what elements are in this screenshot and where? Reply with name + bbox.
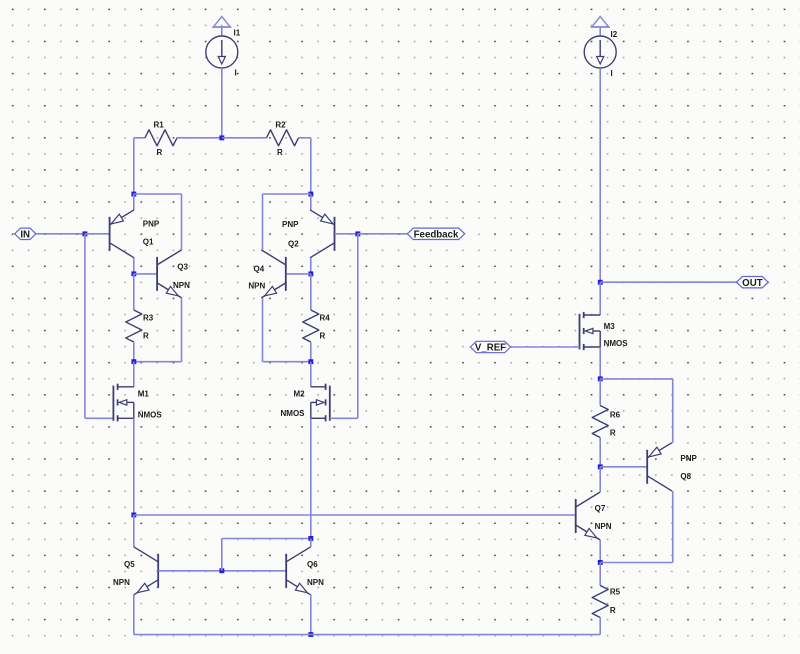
wire bbox=[134, 137, 145, 139]
node junction left rail bbox=[131, 513, 136, 518]
wire bbox=[133, 418, 135, 515]
node junction IN bbox=[83, 231, 88, 236]
port V_REF bbox=[470, 341, 510, 353]
wire bbox=[221, 68, 223, 138]
port Feedback bbox=[407, 228, 464, 240]
svg-text:Q2: Q2 bbox=[288, 239, 299, 248]
wire bbox=[133, 138, 135, 194]
wire bbox=[158, 570, 286, 572]
svg-text:M1: M1 bbox=[138, 390, 150, 399]
value label R bbox=[157, 148, 163, 157]
wire bbox=[85, 417, 114, 419]
svg-text:R2: R2 bbox=[275, 120, 286, 129]
wire bbox=[85, 233, 110, 235]
svg-text:PNP: PNP bbox=[143, 219, 160, 228]
transistor Q2 PNP bbox=[310, 210, 335, 258]
wire bbox=[330, 417, 358, 419]
svg-text:R: R bbox=[143, 331, 149, 340]
wire bbox=[600, 378, 673, 380]
svg-text:NPN: NPN bbox=[595, 522, 612, 531]
label Q7 bbox=[595, 504, 606, 513]
wire bbox=[599, 282, 601, 315]
current source I1 bbox=[206, 36, 238, 68]
wire bbox=[310, 258, 312, 274]
wire bbox=[177, 137, 222, 139]
svg-text:R: R bbox=[320, 331, 326, 340]
port OUT bbox=[737, 277, 769, 289]
wire bbox=[134, 514, 576, 516]
label NPN bbox=[248, 282, 265, 291]
svg-text:PNP: PNP bbox=[680, 454, 697, 463]
wire bbox=[263, 361, 311, 363]
svg-text:NPN: NPN bbox=[113, 578, 130, 587]
wire bbox=[599, 540, 601, 563]
svg-text:IN: IN bbox=[20, 229, 30, 240]
svg-text:R6: R6 bbox=[610, 411, 621, 420]
wire bbox=[310, 194, 312, 210]
value label R bbox=[277, 148, 283, 157]
svg-text:R: R bbox=[610, 429, 616, 438]
svg-text:I1: I1 bbox=[234, 29, 241, 38]
label M2 bbox=[294, 390, 306, 399]
wire bbox=[221, 27, 223, 36]
resistor R4 bbox=[303, 310, 319, 342]
wire bbox=[133, 515, 135, 547]
wire bbox=[335, 233, 358, 235]
wire bbox=[511, 346, 580, 348]
label Q6 bbox=[307, 560, 318, 569]
wire bbox=[133, 258, 135, 274]
label R3 bbox=[143, 313, 154, 322]
node junction R6 bottom bbox=[598, 464, 603, 469]
wire bbox=[310, 274, 312, 310]
label PNP bbox=[282, 220, 299, 229]
wire bbox=[299, 137, 311, 139]
value label I bbox=[235, 69, 237, 78]
node junction Q7 emitter bbox=[598, 560, 603, 565]
wire bbox=[133, 362, 135, 387]
value label I bbox=[611, 69, 613, 78]
node junction Q2 emitter bbox=[308, 192, 313, 197]
node junction R4 bottom bbox=[308, 359, 313, 364]
label R6 bbox=[610, 411, 621, 420]
wire bbox=[599, 618, 601, 635]
wire bbox=[310, 138, 312, 194]
transistor Q3 NPN bbox=[157, 250, 182, 298]
svg-text:NPN: NPN bbox=[248, 282, 265, 291]
svg-text:R: R bbox=[157, 148, 163, 157]
svg-text:I: I bbox=[235, 69, 237, 78]
label Q4 bbox=[254, 264, 265, 273]
label I2 bbox=[611, 30, 618, 39]
svg-text:NPN: NPN bbox=[173, 281, 190, 290]
wire bbox=[222, 137, 267, 139]
value label R bbox=[610, 606, 616, 615]
wire bbox=[599, 68, 601, 282]
label NMOS bbox=[604, 339, 629, 348]
svg-text:Feedback: Feedback bbox=[414, 229, 459, 240]
wire bbox=[310, 362, 312, 387]
wire bbox=[310, 539, 312, 547]
resistor R1 bbox=[145, 130, 177, 146]
node junction Q6 collector bbox=[308, 536, 313, 541]
svg-text:NPN: NPN bbox=[307, 578, 324, 587]
svg-text:V_REF: V_REF bbox=[475, 343, 506, 354]
svg-text:I: I bbox=[611, 69, 613, 78]
wire bbox=[599, 379, 601, 406]
node junction M3 source bbox=[598, 376, 603, 381]
value label R bbox=[143, 331, 149, 340]
label R4 bbox=[320, 313, 331, 322]
svg-text:I2: I2 bbox=[611, 30, 618, 39]
wire bbox=[262, 194, 264, 250]
node junction Q2 collector bbox=[308, 271, 313, 276]
svg-text:Q3: Q3 bbox=[177, 263, 188, 272]
svg-text:NMOS: NMOS bbox=[281, 409, 306, 418]
label Q2 bbox=[288, 239, 299, 248]
transistor Q5 NPN bbox=[134, 547, 159, 595]
svg-text:Q7: Q7 bbox=[595, 504, 606, 513]
svg-text:R1: R1 bbox=[154, 120, 165, 129]
wire bbox=[310, 418, 312, 538]
node junction OUT bbox=[598, 280, 603, 285]
svg-text:Q6: Q6 bbox=[307, 560, 318, 569]
wire bbox=[262, 298, 264, 362]
resistor R2 bbox=[267, 130, 299, 146]
wire bbox=[263, 193, 311, 195]
wire bbox=[221, 539, 223, 571]
value label R bbox=[320, 331, 326, 340]
svg-text:Q5: Q5 bbox=[124, 560, 135, 569]
wire bbox=[36, 233, 85, 235]
node junction Feedback bbox=[355, 231, 360, 236]
transistor M3 NMOS bbox=[580, 312, 601, 350]
svg-text:R: R bbox=[610, 606, 616, 615]
svg-text:NMOS: NMOS bbox=[138, 411, 163, 420]
wire bbox=[357, 234, 359, 418]
value label R bbox=[610, 429, 616, 438]
label M3 bbox=[604, 322, 616, 331]
wire bbox=[599, 467, 601, 492]
transistor Q8 PNP bbox=[647, 443, 672, 491]
label NMOS bbox=[138, 411, 163, 420]
svg-text:R4: R4 bbox=[320, 313, 331, 322]
svg-text:M2: M2 bbox=[294, 390, 306, 399]
wire bbox=[134, 361, 182, 363]
port IN bbox=[15, 228, 36, 240]
wire bbox=[286, 273, 311, 275]
label R2 bbox=[275, 120, 286, 129]
node junction R1-R2-I1 bbox=[219, 135, 224, 140]
svg-text:Q8: Q8 bbox=[680, 472, 691, 481]
transistor M1 NMOS bbox=[113, 384, 133, 422]
label M1 bbox=[138, 390, 150, 399]
wire bbox=[133, 194, 135, 210]
svg-text:R3: R3 bbox=[143, 313, 154, 322]
node junction Q1 emitter bbox=[131, 192, 136, 197]
label NPN bbox=[595, 522, 612, 531]
wire bbox=[133, 342, 135, 362]
wire bbox=[358, 233, 408, 235]
wire bbox=[134, 193, 182, 195]
node junction R3 bottom bbox=[131, 359, 136, 364]
transistor M2 NMOS bbox=[311, 384, 330, 422]
transistor Q7 NPN bbox=[576, 492, 601, 540]
wire bbox=[599, 27, 601, 36]
label NPN bbox=[113, 578, 130, 587]
wire bbox=[310, 342, 312, 362]
wire bbox=[310, 595, 312, 635]
wire bbox=[84, 234, 86, 418]
wire bbox=[600, 562, 673, 564]
label Q3 bbox=[177, 263, 188, 272]
svg-text:M3: M3 bbox=[604, 322, 616, 331]
svg-text:Q1: Q1 bbox=[143, 238, 154, 247]
wire bbox=[181, 298, 183, 362]
transistor Q1 PNP bbox=[110, 210, 135, 258]
label Q5 bbox=[124, 560, 135, 569]
wire bbox=[222, 538, 311, 540]
label I1 bbox=[234, 29, 241, 38]
label NMOS bbox=[281, 409, 306, 418]
wire bbox=[599, 563, 601, 586]
power flag above I2 bbox=[591, 17, 610, 28]
resistor R3 bbox=[126, 310, 142, 342]
wire bbox=[181, 194, 183, 250]
transistor Q4 NPN bbox=[261, 250, 286, 298]
transistor Q6 NPN bbox=[286, 547, 311, 595]
wire bbox=[133, 595, 135, 635]
label PNP bbox=[680, 454, 697, 463]
node junction Q5-Q6 base bbox=[219, 568, 224, 573]
label Q8 bbox=[680, 472, 691, 481]
wire bbox=[133, 274, 135, 310]
wire bbox=[134, 273, 157, 275]
wire bbox=[599, 347, 601, 379]
label NPN bbox=[173, 281, 190, 290]
label R5 bbox=[610, 588, 621, 597]
label R1 bbox=[154, 120, 165, 129]
svg-text:PNP: PNP bbox=[282, 220, 299, 229]
current source I2 bbox=[584, 36, 616, 68]
wire bbox=[134, 634, 600, 636]
resistor R5 bbox=[592, 586, 608, 618]
svg-text:R5: R5 bbox=[610, 588, 621, 597]
node junction bottom rail bbox=[308, 632, 313, 637]
svg-text:R: R bbox=[277, 148, 283, 157]
wire bbox=[600, 281, 736, 283]
wire bbox=[600, 466, 647, 468]
power flag above I1 bbox=[212, 17, 231, 28]
label Q1 bbox=[143, 238, 154, 247]
label NPN bbox=[307, 578, 324, 587]
label PNP bbox=[143, 219, 160, 228]
resistor R6 bbox=[592, 406, 608, 438]
wire bbox=[672, 491, 674, 563]
node junction Q1 collector bbox=[131, 271, 136, 276]
wire bbox=[599, 438, 601, 467]
wire bbox=[672, 379, 674, 443]
svg-text:Q4: Q4 bbox=[254, 264, 265, 273]
svg-text:NMOS: NMOS bbox=[604, 339, 629, 348]
svg-text:OUT: OUT bbox=[742, 278, 763, 289]
